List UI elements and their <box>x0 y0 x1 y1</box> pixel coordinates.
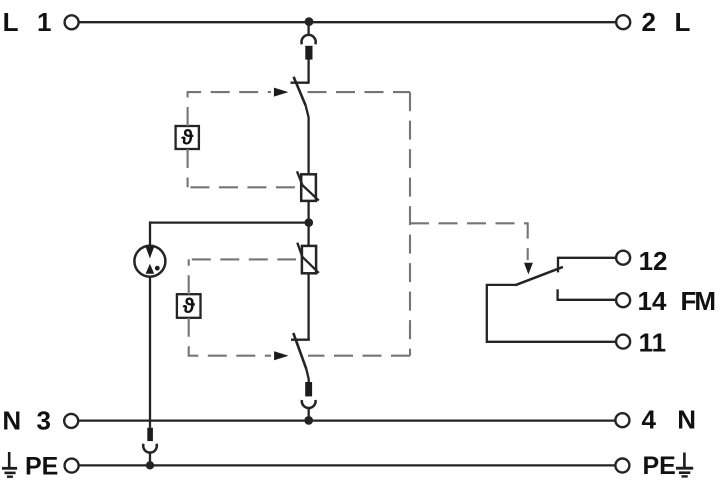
dashed link switch2 to bus <box>308 355 410 357</box>
varistor F1 body <box>301 174 316 201</box>
switch 2 blade <box>293 333 306 369</box>
dashed bus vertical <box>409 92 411 356</box>
svg-text:L: L <box>3 7 19 37</box>
svg-text:N: N <box>2 406 21 436</box>
wire PE line <box>79 464 615 466</box>
FM changeover blade <box>515 267 563 285</box>
wire lower disconnect to N node <box>308 408 310 421</box>
disconnect device arc (top) <box>302 35 316 44</box>
arrow at switch 1 <box>274 88 289 97</box>
wire varistor 1 to mid node <box>307 201 309 223</box>
gas discharge tube gas dot <box>155 266 160 271</box>
node on N line <box>304 416 313 425</box>
terminal 14 FM <box>616 293 630 307</box>
terminal 2 L <box>616 15 630 29</box>
varistor F2 body <box>302 246 316 273</box>
svg-text:ϑ: ϑ <box>181 127 194 150</box>
svg-text:3: 3 <box>37 406 51 436</box>
arrow at FM changeover contact <box>524 263 533 275</box>
svg-text:PE: PE <box>25 453 58 480</box>
node mid junction <box>305 218 314 227</box>
varistor F1 diagonal <box>297 171 319 200</box>
node on L line <box>305 17 314 26</box>
gas discharge tube lower electrode triangle <box>146 264 155 274</box>
wire N line <box>78 419 615 421</box>
svg-text:4: 4 <box>642 405 657 435</box>
dashed link corner to varistor 1 <box>188 186 295 188</box>
terminal 4 N <box>615 413 629 427</box>
dashed link box2 up <box>188 259 190 294</box>
wire mid node to left branch <box>150 221 309 223</box>
lower disconnect fuse element (filled rect) <box>305 382 312 396</box>
switch 1 blade <box>294 77 306 106</box>
dashed link box2 down to switch 2 <box>189 318 271 356</box>
switch 2 fixed contact jog <box>291 339 310 341</box>
svg-text:L: L <box>675 7 691 37</box>
wire mid node down to varistor 2 <box>307 223 309 247</box>
dashed link switch1 to bus <box>308 91 411 93</box>
wire left branch down to gas discharge tube <box>149 221 151 245</box>
lower disconnect arc <box>302 400 316 408</box>
svg-text:11: 11 <box>639 327 667 357</box>
terminal PE right <box>615 459 629 473</box>
dashed thermal links <box>188 92 528 356</box>
wire from L node down <box>307 22 309 35</box>
switch 1 fixed contact jog <box>291 82 310 84</box>
wire L line <box>79 21 616 23</box>
wire from switch 1 to varistor 1 <box>306 106 309 175</box>
svg-text:PE: PE <box>643 452 676 480</box>
terminal 12 <box>616 251 630 265</box>
svg-text:2: 2 <box>642 7 656 37</box>
svg-text:14: 14 <box>638 286 667 316</box>
dashed link corner to varistor 2 <box>189 258 296 260</box>
dashed link box1 down <box>187 149 189 187</box>
FM contact 12 wire <box>558 258 616 273</box>
gas discharge tube upper electrode triangle <box>146 247 155 259</box>
wire to switch 1 <box>307 59 309 82</box>
FM common wire from terminal 11 <box>487 285 616 342</box>
terminal PE left <box>65 459 79 473</box>
dashed branch to FM contact <box>410 223 528 260</box>
dashed link box1 up <box>188 92 271 126</box>
svg-text:FM: FM <box>681 286 715 316</box>
node on PE line <box>146 461 154 469</box>
wire arc to PE node <box>149 451 151 465</box>
thermal sensor box 1 <box>176 126 199 149</box>
wire varistor 2 to switch 2 <box>307 273 309 339</box>
svg-text:12: 12 <box>639 246 668 276</box>
thermal sensor box 2 <box>177 294 201 318</box>
N-PE disconnect arc <box>143 444 157 453</box>
wire gas discharge tube down across N to N-PE disconnect <box>149 277 151 428</box>
arrow at switch 2 <box>274 351 289 360</box>
FM contact 14 wire <box>558 289 616 300</box>
terminal 1 L <box>65 15 79 29</box>
wire switch 2 to lower disconnect <box>306 369 308 383</box>
ground symbol left <box>2 452 17 477</box>
terminal 11 <box>616 335 630 349</box>
ground symbol right <box>676 453 693 477</box>
disconnect device fuse element (filled rect) <box>305 46 312 60</box>
gas discharge tube circle <box>134 246 165 277</box>
terminal 3 N <box>64 414 78 428</box>
N-PE disconnect fuse element (filled rect) <box>147 428 153 441</box>
svg-text:ϑ: ϑ <box>183 295 196 318</box>
svg-text:N: N <box>677 404 696 434</box>
varistor F2 diagonal <box>297 243 319 273</box>
svg-text:1: 1 <box>37 7 51 37</box>
